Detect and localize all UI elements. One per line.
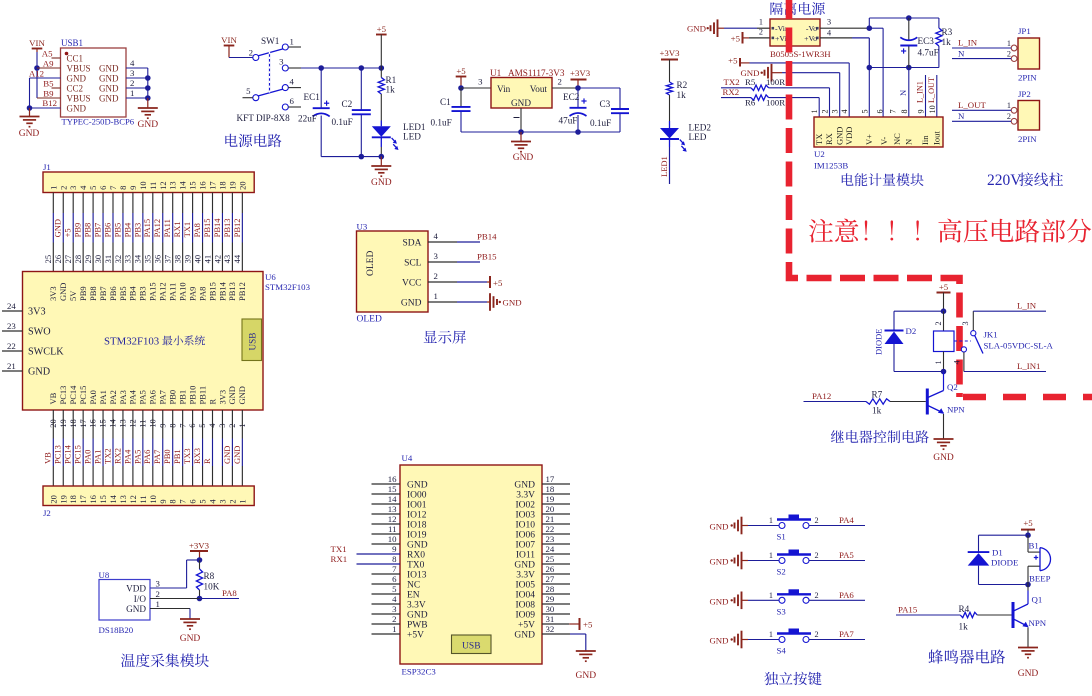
svg-text:18: 18 — [217, 181, 227, 190]
svg-text:GND: GND — [180, 634, 201, 644]
regulator U1 body — [491, 78, 552, 109]
svg-text:39: 39 — [182, 255, 192, 264]
svg-text:5V: 5V — [68, 290, 78, 301]
svg-text:S2: S2 — [777, 567, 786, 577]
svg-text:15: 15 — [388, 484, 397, 494]
svg-text:NPN: NPN — [947, 405, 965, 415]
svg-text:GND: GND — [513, 153, 534, 163]
svg-text:TX1: TX1 — [331, 544, 347, 554]
USB1 pin A9 wire — [37, 67, 61, 69]
svg-text:TX2: TX2 — [102, 448, 112, 464]
wire GND to S3 — [742, 599, 749, 601]
svg-text:IO01: IO01 — [407, 500, 427, 510]
wires J1 to U6 top pins — [52, 193, 54, 214]
wire U2 N pin — [908, 68, 910, 118]
node -Vo junction — [867, 25, 873, 31]
wire GND to B0505 pin1 — [718, 27, 725, 29]
ground at U8 — [189, 618, 191, 619]
svg-text:RX2: RX2 — [723, 87, 740, 97]
svg-text:PB1: PB1 — [177, 390, 187, 405]
USB1 pin B9 wire — [37, 97, 61, 99]
svg-text:GND: GND — [53, 219, 63, 237]
svg-text:Vout: Vout — [530, 84, 548, 94]
svg-text:L_OUT: L_OUT — [927, 77, 936, 103]
svg-text:3: 3 — [279, 57, 284, 67]
svg-text:L_IN1: L_IN1 — [916, 81, 925, 103]
svg-text:PA6: PA6 — [142, 450, 152, 464]
svg-text:SCL: SCL — [404, 259, 422, 269]
svg-text:IM1253B: IM1253B — [814, 161, 848, 171]
svg-text:GND: GND — [99, 84, 119, 94]
wire Q1 emitter to GND — [1027, 628, 1029, 648]
svg-text:+5: +5 — [939, 282, 949, 292]
svg-text:TX0: TX0 — [407, 560, 425, 570]
svg-text:2: 2 — [58, 186, 68, 190]
title power circuit — [225, 134, 281, 147]
diode D1 — [968, 551, 990, 553]
connector JP2 body — [1018, 101, 1040, 131]
svg-text:J1: J1 — [43, 162, 51, 172]
capacitor EC1 wires — [320, 68, 322, 108]
svg-text:19: 19 — [58, 495, 68, 504]
svg-text:5: 5 — [88, 186, 98, 190]
svg-text:3: 3 — [68, 186, 78, 190]
svg-text:26: 26 — [53, 255, 63, 264]
svg-text:12: 12 — [158, 181, 168, 190]
svg-text:+5: +5 — [583, 619, 593, 629]
svg-text:43: 43 — [222, 255, 232, 264]
wire U2 Iout pin — [936, 75, 938, 117]
svg-text:IO03: IO03 — [515, 510, 535, 520]
svg-text:Q1: Q1 — [1032, 595, 1043, 605]
svg-text:PB14: PB14 — [212, 218, 222, 238]
wire S1 to PA4 — [809, 525, 865, 527]
svg-text:6: 6 — [875, 109, 884, 113]
USB1 pin A5 wire — [52, 57, 61, 59]
svg-text:PA4: PA4 — [839, 515, 854, 525]
svg-text:CC1: CC1 — [67, 54, 84, 64]
svg-text:+5: +5 — [377, 24, 387, 34]
svg-text:3: 3 — [156, 579, 161, 589]
title relay control — [831, 430, 929, 443]
svg-text:VBUS: VBUS — [67, 94, 91, 104]
svg-text:4: 4 — [392, 594, 397, 604]
switch SW1 arm 2-1 — [258, 49, 283, 56]
high voltage boundary dashed line — [789, 0, 960, 397]
svg-text:S1: S1 — [777, 532, 786, 542]
USB1 pin B5 wire — [52, 87, 61, 89]
svg-text:16: 16 — [198, 181, 208, 190]
svg-text:A5: A5 — [42, 49, 53, 59]
svg-text:PC14: PC14 — [68, 385, 78, 405]
capacitor C3 wires — [619, 113, 621, 132]
svg-text:2: 2 — [1007, 50, 1011, 59]
svg-text:RX1: RX1 — [172, 221, 182, 237]
svg-text:2PIN: 2PIN — [1018, 134, 1037, 144]
svg-text:PB4: PB4 — [122, 222, 132, 237]
svg-text:N: N — [898, 90, 908, 96]
svg-text:24: 24 — [7, 301, 16, 311]
svg-text:7: 7 — [178, 499, 188, 503]
node +3V3/EC2 — [575, 85, 581, 91]
svg-text:32: 32 — [113, 255, 123, 264]
svg-text:GND: GND — [933, 453, 954, 463]
U4 right pin stubs — [542, 483, 570, 485]
svg-text:DS18B20: DS18B20 — [99, 625, 134, 635]
connector JP1 body — [1018, 38, 1040, 69]
svg-text:14: 14 — [108, 494, 118, 503]
svg-text:PA5: PA5 — [132, 450, 142, 464]
svg-text:11: 11 — [388, 524, 396, 534]
svg-text:U8: U8 — [99, 570, 110, 580]
svg-text:+3V3: +3V3 — [659, 48, 680, 58]
svg-text:21: 21 — [7, 361, 16, 371]
power net +5 at U3 — [487, 281, 490, 283]
svg-text:25: 25 — [546, 554, 555, 564]
svg-text:GND: GND — [138, 120, 159, 130]
wire -Vo to top rail — [868, 18, 870, 28]
svg-text:U1: U1 — [490, 68, 502, 78]
svg-text:37: 37 — [163, 255, 173, 264]
svg-text:PB14: PB14 — [477, 232, 497, 242]
svg-text:100R: 100R — [766, 77, 785, 87]
relay JK1 contact pin4 — [961, 347, 966, 352]
title metering module — [842, 173, 924, 186]
node EC2 bottom — [575, 129, 581, 135]
svg-text:IO05: IO05 — [515, 580, 535, 590]
svg-text:+5: +5 — [456, 66, 466, 76]
svg-text:0.1uF: 0.1uF — [332, 117, 353, 127]
wires U6 to J2 — [52, 410, 54, 439]
ground at U3 — [487, 301, 490, 303]
svg-text:Iin: Iin — [920, 135, 930, 145]
svg-text:VDD: VDD — [126, 584, 146, 594]
wire L_IN to JP1 — [952, 47, 1011, 49]
svg-text:C2: C2 — [342, 99, 353, 109]
capacitor EC1 — [313, 107, 330, 109]
resistor R2 — [666, 82, 672, 95]
svg-text:2PIN: 2PIN — [1018, 73, 1037, 83]
switch SW1 pin 1 — [282, 44, 288, 50]
title buzzer circuit — [928, 649, 1005, 663]
connector USB1 body — [61, 48, 127, 117]
svg-text:26: 26 — [546, 564, 555, 574]
svg-text:47uF: 47uF — [559, 116, 578, 126]
node EC3 bottom — [906, 65, 912, 71]
wire S4 to PA7 — [809, 639, 865, 641]
svg-text:PA8: PA8 — [222, 588, 237, 598]
svg-text:PB1: PB1 — [172, 449, 182, 464]
svg-text:1: 1 — [934, 360, 943, 364]
resistor R7 — [866, 399, 890, 404]
svg-text:GND: GND — [371, 178, 392, 188]
svg-text:IO08: IO08 — [515, 600, 535, 610]
svg-text:6: 6 — [392, 574, 397, 584]
svg-text:11: 11 — [148, 182, 158, 190]
svg-text:EC2: EC2 — [563, 92, 580, 102]
wire N to JP1 — [952, 58, 1011, 60]
svg-text:27: 27 — [63, 255, 73, 264]
svg-text:OLED: OLED — [357, 315, 382, 325]
svg-text:JK1: JK1 — [984, 330, 998, 340]
svg-text:PB9: PB9 — [78, 286, 88, 301]
header J1 body — [43, 172, 254, 193]
svg-text:1: 1 — [237, 499, 247, 503]
svg-text:IO13: IO13 — [407, 570, 427, 580]
node relay bottom junction — [941, 369, 947, 375]
svg-text:R6: R6 — [745, 98, 756, 108]
switch SW1 pin 4 — [282, 85, 288, 91]
svg-text:J2: J2 — [43, 508, 51, 518]
resistor R8 — [199, 560, 201, 569]
svg-text:PA4: PA4 — [122, 449, 132, 464]
svg-text:25: 25 — [43, 255, 53, 264]
dcdc module B0505 body — [770, 19, 820, 46]
node EC3 top — [906, 15, 912, 21]
svg-text:PA12: PA12 — [152, 219, 162, 238]
svg-text:PB5: PB5 — [118, 286, 128, 301]
wire U1 GND pin — [520, 108, 522, 132]
svg-text:PA1: PA1 — [98, 390, 108, 404]
svg-text:22: 22 — [7, 341, 16, 351]
svg-text:VCC: VCC — [402, 279, 422, 289]
node EC1 top — [318, 65, 324, 71]
svg-text:VB: VB — [43, 452, 53, 464]
svg-text:2: 2 — [156, 589, 160, 599]
svg-text:PA1: PA1 — [92, 450, 102, 464]
svg-text:+5: +5 — [731, 34, 741, 44]
svg-text:STM32F103: STM32F103 — [265, 282, 311, 292]
svg-text:GND: GND — [709, 596, 728, 606]
svg-text:35: 35 — [143, 255, 153, 264]
svg-text:D2: D2 — [906, 326, 917, 336]
svg-text:24: 24 — [546, 544, 555, 554]
svg-text:3: 3 — [434, 251, 439, 261]
svg-text:B5: B5 — [43, 79, 54, 89]
svg-text:GND: GND — [834, 127, 844, 145]
svg-text:VB: VB — [48, 392, 58, 404]
node +Vo rail junction — [867, 65, 873, 71]
wire S2 to PA5 — [809, 560, 865, 562]
title display — [424, 331, 466, 344]
svg-text:PB3: PB3 — [138, 286, 148, 301]
resistor R1 — [380, 68, 382, 78]
svg-text:1: 1 — [434, 291, 438, 301]
node GND stem — [518, 129, 524, 135]
wire GND to S4 — [742, 639, 749, 641]
wire SDA to PB14 — [457, 241, 480, 243]
svg-text:38: 38 — [172, 255, 182, 264]
svg-text:1k: 1k — [677, 90, 687, 100]
svg-text:1: 1 — [1007, 101, 1011, 110]
svg-text:10K: 10K — [204, 582, 220, 592]
svg-text:S4: S4 — [777, 646, 787, 656]
wire SCL to PB15 — [457, 261, 480, 263]
wire U2 Iin pin — [925, 75, 927, 117]
svg-text:PA15: PA15 — [898, 605, 918, 615]
svg-text:220V: 220V — [987, 172, 1022, 189]
svg-text:IO02: IO02 — [515, 500, 535, 510]
svg-text:10: 10 — [928, 105, 937, 113]
svg-text:GND: GND — [19, 129, 40, 139]
svg-text:31: 31 — [103, 255, 113, 264]
wire U1 Vout to +3V3 — [552, 87, 578, 89]
svg-text:PA12: PA12 — [158, 282, 168, 301]
svg-text:SW1: SW1 — [261, 36, 280, 46]
wire GND to S2 — [742, 560, 749, 562]
svg-text:33: 33 — [123, 255, 133, 264]
svg-text:RX2: RX2 — [112, 448, 122, 464]
svg-text:17: 17 — [208, 181, 218, 190]
svg-text:N: N — [958, 111, 965, 121]
svg-text:44: 44 — [232, 254, 242, 263]
svg-text:PB0: PB0 — [168, 390, 178, 405]
node relay top junction — [941, 308, 947, 314]
svg-text:USB: USB — [248, 333, 258, 351]
svg-text:PC13: PC13 — [58, 386, 68, 405]
wire D2 to relay bottom — [893, 344, 895, 372]
svg-text:DIODE: DIODE — [991, 558, 1018, 568]
svg-text:12: 12 — [388, 514, 397, 524]
svg-text:PA11: PA11 — [162, 219, 172, 237]
svg-text:L_IN: L_IN — [958, 38, 978, 48]
svg-text:5: 5 — [246, 86, 251, 96]
svg-text:GND: GND — [407, 610, 428, 620]
svg-text:3V3: 3V3 — [28, 307, 46, 318]
svg-text:42: 42 — [212, 255, 222, 264]
svg-text:IO18: IO18 — [407, 520, 427, 530]
svg-text:3.3V: 3.3V — [516, 570, 535, 580]
svg-text:PA15: PA15 — [148, 282, 158, 301]
svg-text:PA0: PA0 — [88, 390, 98, 404]
node GND-left junction — [27, 105, 33, 111]
svg-text:R4: R4 — [959, 604, 970, 614]
wire R2 to LED2 — [669, 95, 671, 121]
svg-text:13: 13 — [118, 495, 128, 504]
svg-text:3.3V: 3.3V — [407, 600, 426, 610]
svg-text:29: 29 — [546, 594, 555, 604]
wire buzzer top to D1 — [979, 534, 1029, 536]
svg-text:IO06: IO06 — [515, 530, 535, 540]
svg-text:16: 16 — [388, 474, 397, 484]
svg-text:15: 15 — [98, 495, 108, 504]
wire -Vo to U2 V- — [869, 27, 883, 29]
svg-text:3: 3 — [392, 604, 397, 614]
transistor Q2 — [926, 389, 929, 415]
svg-text:TX1: TX1 — [182, 222, 192, 238]
svg-text:10: 10 — [388, 534, 397, 544]
wire R7 to Q2 base — [890, 401, 926, 403]
svg-text:10: 10 — [138, 181, 148, 190]
svg-text:PB6: PB6 — [102, 223, 112, 238]
power net +5 at U4 pin31 — [542, 623, 569, 625]
svg-text:SDA: SDA — [402, 239, 421, 249]
svg-text:PB3: PB3 — [132, 223, 142, 238]
svg-text:B0505S-1WR3H: B0505S-1WR3H — [770, 49, 831, 59]
svg-text:11: 11 — [138, 495, 148, 503]
svg-text:GND: GND — [28, 367, 50, 378]
svg-text:1k: 1k — [959, 622, 969, 632]
svg-text:34: 34 — [133, 254, 143, 263]
switch SW1 arm 5-4 — [258, 89, 283, 96]
svg-text:SLA-05VDC-SL-A: SLA-05VDC-SL-A — [984, 341, 1054, 351]
wire S3 to PA6 — [809, 599, 865, 601]
svg-text:0.1uF: 0.1uF — [431, 118, 452, 128]
svg-text:1: 1 — [290, 37, 294, 47]
svg-text:2: 2 — [392, 614, 396, 624]
led LED2 — [660, 128, 679, 139]
svg-text:GND: GND — [237, 386, 247, 404]
svg-text:+5V: +5V — [518, 620, 535, 630]
svg-text:B1: B1 — [1029, 541, 1039, 551]
svg-text:13: 13 — [388, 504, 397, 514]
svg-text:28: 28 — [546, 584, 555, 594]
svg-text:18: 18 — [546, 484, 555, 494]
svg-text:8: 8 — [900, 109, 909, 113]
svg-text:R8: R8 — [204, 571, 215, 581]
svg-text:GND: GND — [511, 98, 531, 108]
svg-text:PA10: PA10 — [177, 282, 187, 301]
svg-text:PA11: PA11 — [168, 283, 178, 301]
svg-text:1: 1 — [769, 591, 773, 600]
svg-text:PA3: PA3 — [118, 390, 128, 404]
wire +5 stem — [380, 35, 382, 69]
svg-text:+5: +5 — [728, 56, 738, 66]
svg-text:L_IN: L_IN — [1017, 301, 1037, 311]
wire bottom rail U1 — [461, 131, 620, 133]
svg-text:PC13: PC13 — [53, 445, 63, 464]
svg-text:USB1: USB1 — [61, 38, 83, 48]
capacitor EC3 — [900, 45, 917, 47]
svg-text:5: 5 — [860, 109, 869, 113]
capacitor C2 — [352, 109, 371, 111]
svg-text:R3: R3 — [942, 27, 953, 37]
svg-text:22: 22 — [546, 524, 555, 534]
wire SW1 pin3 to +5 rail — [301, 67, 381, 69]
svg-text:+5: +5 — [1023, 518, 1033, 528]
wire L_OUT to JP2 — [952, 109, 1011, 111]
svg-text:1: 1 — [1007, 39, 1011, 48]
svg-text:5: 5 — [392, 584, 397, 594]
svg-text:3: 3 — [827, 18, 831, 27]
svg-text:2: 2 — [815, 630, 819, 639]
wire PA8 — [200, 598, 240, 600]
svg-text:1k: 1k — [872, 406, 882, 416]
capacitor C2 wires — [360, 68, 362, 110]
svg-text:7: 7 — [392, 564, 397, 574]
svg-text:R: R — [202, 458, 212, 464]
ground at Q1 — [1018, 647, 1038, 649]
svg-text:9: 9 — [128, 186, 138, 190]
relay JK1 coil — [943, 311, 945, 331]
svg-text:TYPEC-250D-BCP6: TYPEC-250D-BCP6 — [62, 117, 135, 127]
wire +5 to U1 Vin — [461, 87, 491, 89]
svg-text:RX0: RX0 — [407, 550, 425, 560]
svg-text:2: 2 — [434, 271, 438, 281]
svg-text:2: 2 — [249, 48, 253, 58]
svg-text:U6: U6 — [265, 272, 276, 282]
svg-text:GND: GND — [99, 94, 119, 104]
svg-text:USB: USB — [462, 642, 480, 652]
svg-text:28: 28 — [73, 255, 83, 264]
ground right — [147, 98, 149, 108]
header J2 body — [43, 486, 254, 506]
resistor R3 — [936, 28, 942, 46]
svg-text:PB13: PB13 — [222, 218, 232, 237]
svg-text:U4: U4 — [402, 453, 413, 463]
svg-text:GND: GND — [709, 557, 728, 567]
svg-text:STM32F103: STM32F103 — [104, 336, 159, 348]
